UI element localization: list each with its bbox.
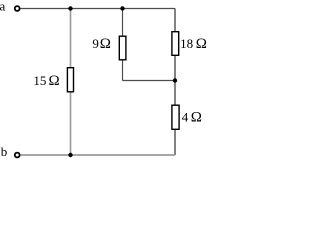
svg-text:Ω: Ω [49,73,60,89]
svg-text:Ω: Ω [191,109,202,125]
svg-text:9: 9 [92,36,99,51]
svg-text:Ω: Ω [100,36,111,52]
svg-text:18: 18 [180,36,193,51]
svg-text:Ω: Ω [196,36,207,52]
svg-text:15: 15 [33,73,46,88]
svg-text:b: b [1,144,8,159]
svg-text:a: a [0,0,6,14]
svg-text:4: 4 [182,109,189,124]
